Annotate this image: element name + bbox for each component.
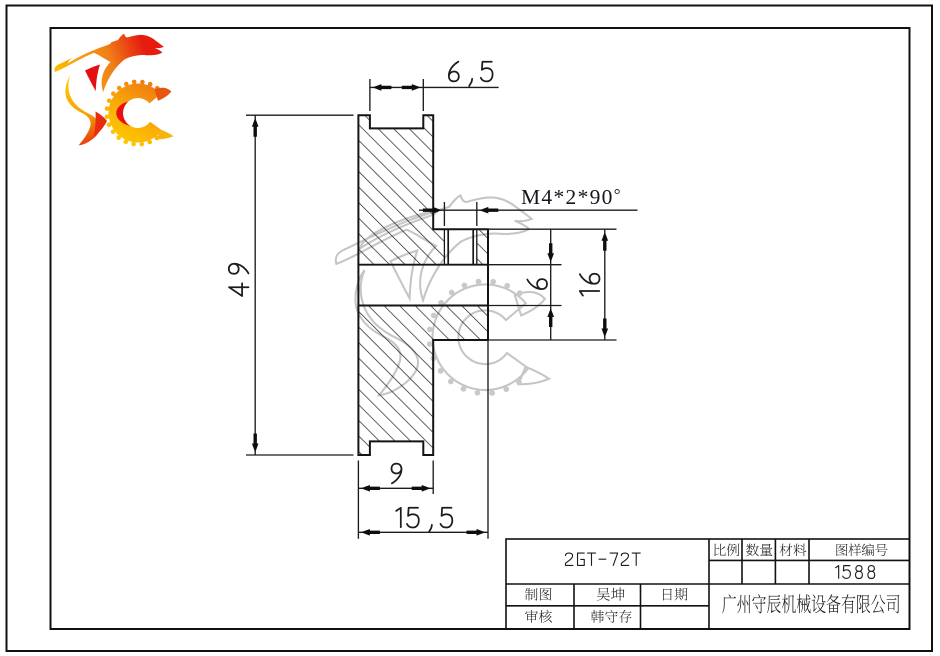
label zhitu (drawn) xyxy=(525,588,552,601)
logo C lower claw xyxy=(157,130,174,140)
dimension 16 line xyxy=(604,229,606,340)
dimension text 9 xyxy=(392,464,402,484)
title block h-line left row xyxy=(506,605,709,607)
dimension text 6 xyxy=(527,279,547,289)
title block frame xyxy=(506,539,910,629)
dimension 6 line xyxy=(550,229,552,340)
title block main divider xyxy=(708,539,710,629)
label bili (scale) xyxy=(714,544,739,557)
name Han Shoucun xyxy=(591,610,632,623)
bore bottom edge xyxy=(358,305,488,307)
watermark logo outline xyxy=(336,196,549,396)
title block h-line right header xyxy=(709,559,910,561)
pulley body outline xyxy=(358,115,488,455)
logo swoosh white slit xyxy=(68,42,112,63)
title block h-line mid xyxy=(506,583,910,585)
label shenhe (checked) xyxy=(525,610,552,623)
logo C red crescent xyxy=(116,102,130,127)
svg-text:M4*2*90°: M4*2*90° xyxy=(521,185,622,209)
drawing number 1588 xyxy=(836,566,875,579)
dimension 16 extension lines xyxy=(488,228,617,230)
dimension 9 line xyxy=(358,487,433,489)
bore top edge xyxy=(358,264,488,266)
logo C upper claw xyxy=(155,88,172,101)
logo gear C teeth xyxy=(155,86,160,91)
dimension 6 extension lines xyxy=(488,264,562,266)
logo dragon-S swoosh xyxy=(54,34,163,93)
label cailiao (material) xyxy=(780,544,807,557)
pulley section hatching upper xyxy=(358,115,444,265)
part number 2GT-72T xyxy=(565,553,640,565)
dimension 49 line xyxy=(254,115,256,455)
dimension M4 extension lines xyxy=(443,202,445,226)
dimension M4 line xyxy=(419,209,638,211)
dimension 9 extension lines xyxy=(357,461,359,539)
logo S body xyxy=(65,76,100,146)
label tuyang bianhao (dwg no.) xyxy=(836,544,887,557)
M4 thread crest lines xyxy=(443,229,445,265)
logo S red shadow lower xyxy=(94,112,108,138)
logo gear C ring xyxy=(109,83,162,142)
company watermark (gray logo outline) xyxy=(336,196,549,396)
M4 set-screw hole walls xyxy=(447,229,449,265)
dimension text 49 xyxy=(229,264,249,296)
watermark teeth dots xyxy=(517,290,523,296)
dimension 6,5 line xyxy=(370,86,499,88)
logo S red shadow upper xyxy=(85,65,100,92)
company logo SC xyxy=(54,34,173,147)
company Guangzhou Shouchen Machinery Co. Ltd xyxy=(722,594,899,613)
dimension 6,5 extension lines xyxy=(369,79,371,111)
title block v-lines right xyxy=(741,539,743,584)
dimension text 16 xyxy=(580,274,600,296)
dimension 15,5 extension line xyxy=(487,340,489,539)
pulley section hatching lower xyxy=(358,306,488,456)
dimension text 6,5 xyxy=(449,62,493,86)
title block v-lines left xyxy=(573,584,575,629)
name Wu Kun xyxy=(597,588,625,601)
label shuliang (qty) xyxy=(746,544,772,557)
dimension text 15,5 xyxy=(396,508,452,532)
dimension 49 extension lines xyxy=(246,114,354,116)
dimension 15,5 line xyxy=(358,531,488,533)
label riqi (date) xyxy=(663,588,688,601)
